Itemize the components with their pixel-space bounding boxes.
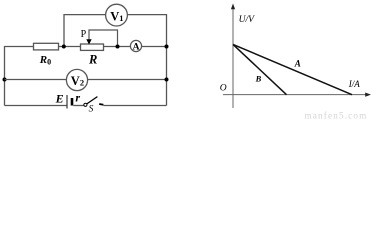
resistor R (rheostat body) bbox=[81, 44, 104, 50]
graph x-axis (I axis) bbox=[223, 93, 371, 97]
svg-text:E: E bbox=[55, 92, 64, 106]
battery cell: short thick plate bbox=[71, 98, 74, 106]
wire: segment from R to ammeter bbox=[104, 46, 131, 48]
battery cell: long plate bbox=[66, 95, 68, 109]
wire: segment from ammeter to right wire bbox=[142, 46, 167, 48]
svg-text:A: A bbox=[133, 43, 140, 53]
svg-text:S: S bbox=[89, 105, 94, 115]
graph line A bbox=[233, 44, 352, 94]
wire: segment between R0 and R bbox=[59, 46, 81, 48]
svg-text:U/V: U/V bbox=[239, 15, 256, 25]
node: junction of V2 branch on left wire bbox=[3, 78, 7, 82]
wire: left vertical wire bbox=[4, 46, 6, 106]
switch S: fixed contact bbox=[99, 103, 103, 106]
ammeter A bbox=[130, 40, 141, 52]
svg-text:r: r bbox=[75, 91, 80, 105]
svg-text:B: B bbox=[255, 74, 262, 84]
svg-text:O: O bbox=[220, 83, 227, 93]
svg-text:R: R bbox=[88, 52, 97, 66]
node: wiper tap junction bbox=[116, 45, 120, 49]
voltmeter V1 bbox=[106, 4, 128, 26]
switch S: pivot circle bbox=[84, 103, 87, 106]
switch S: lever bbox=[87, 97, 98, 104]
wire: V1 branch riser and top wire left of V1 bbox=[64, 15, 106, 47]
rheostat wiper arrow and tap wire to junction bbox=[86, 30, 117, 47]
wire: switch to bottom-right corner bbox=[103, 105, 166, 107]
node: junction middle wire with right wire bbox=[165, 45, 169, 49]
svg-text:manfen5.com: manfen5.com bbox=[305, 110, 368, 119]
resistor R0 bbox=[34, 43, 59, 50]
wire: top wire right of V1 and right-side vertical wire bbox=[127, 15, 166, 106]
voltmeter V2 bbox=[66, 69, 87, 90]
wire: V2 branch right segment bbox=[88, 79, 167, 81]
node: junction of V1 branch on middle wire bbox=[62, 45, 66, 49]
node: junction of V2 branch on right wire bbox=[165, 78, 169, 82]
svg-text:I/A: I/A bbox=[348, 79, 360, 89]
wire: middle wire from left corner to R0 bbox=[5, 46, 34, 48]
wire: battery to switch pivot bbox=[73, 105, 84, 107]
graph y-axis (U axis) bbox=[231, 4, 235, 109]
svg-text:A: A bbox=[294, 58, 301, 68]
wire: bottom wire from left corner to battery bbox=[5, 105, 68, 107]
graph line B bbox=[233, 44, 287, 94]
svg-text:P: P bbox=[81, 29, 87, 40]
wire: V2 branch left segment bbox=[5, 79, 67, 81]
